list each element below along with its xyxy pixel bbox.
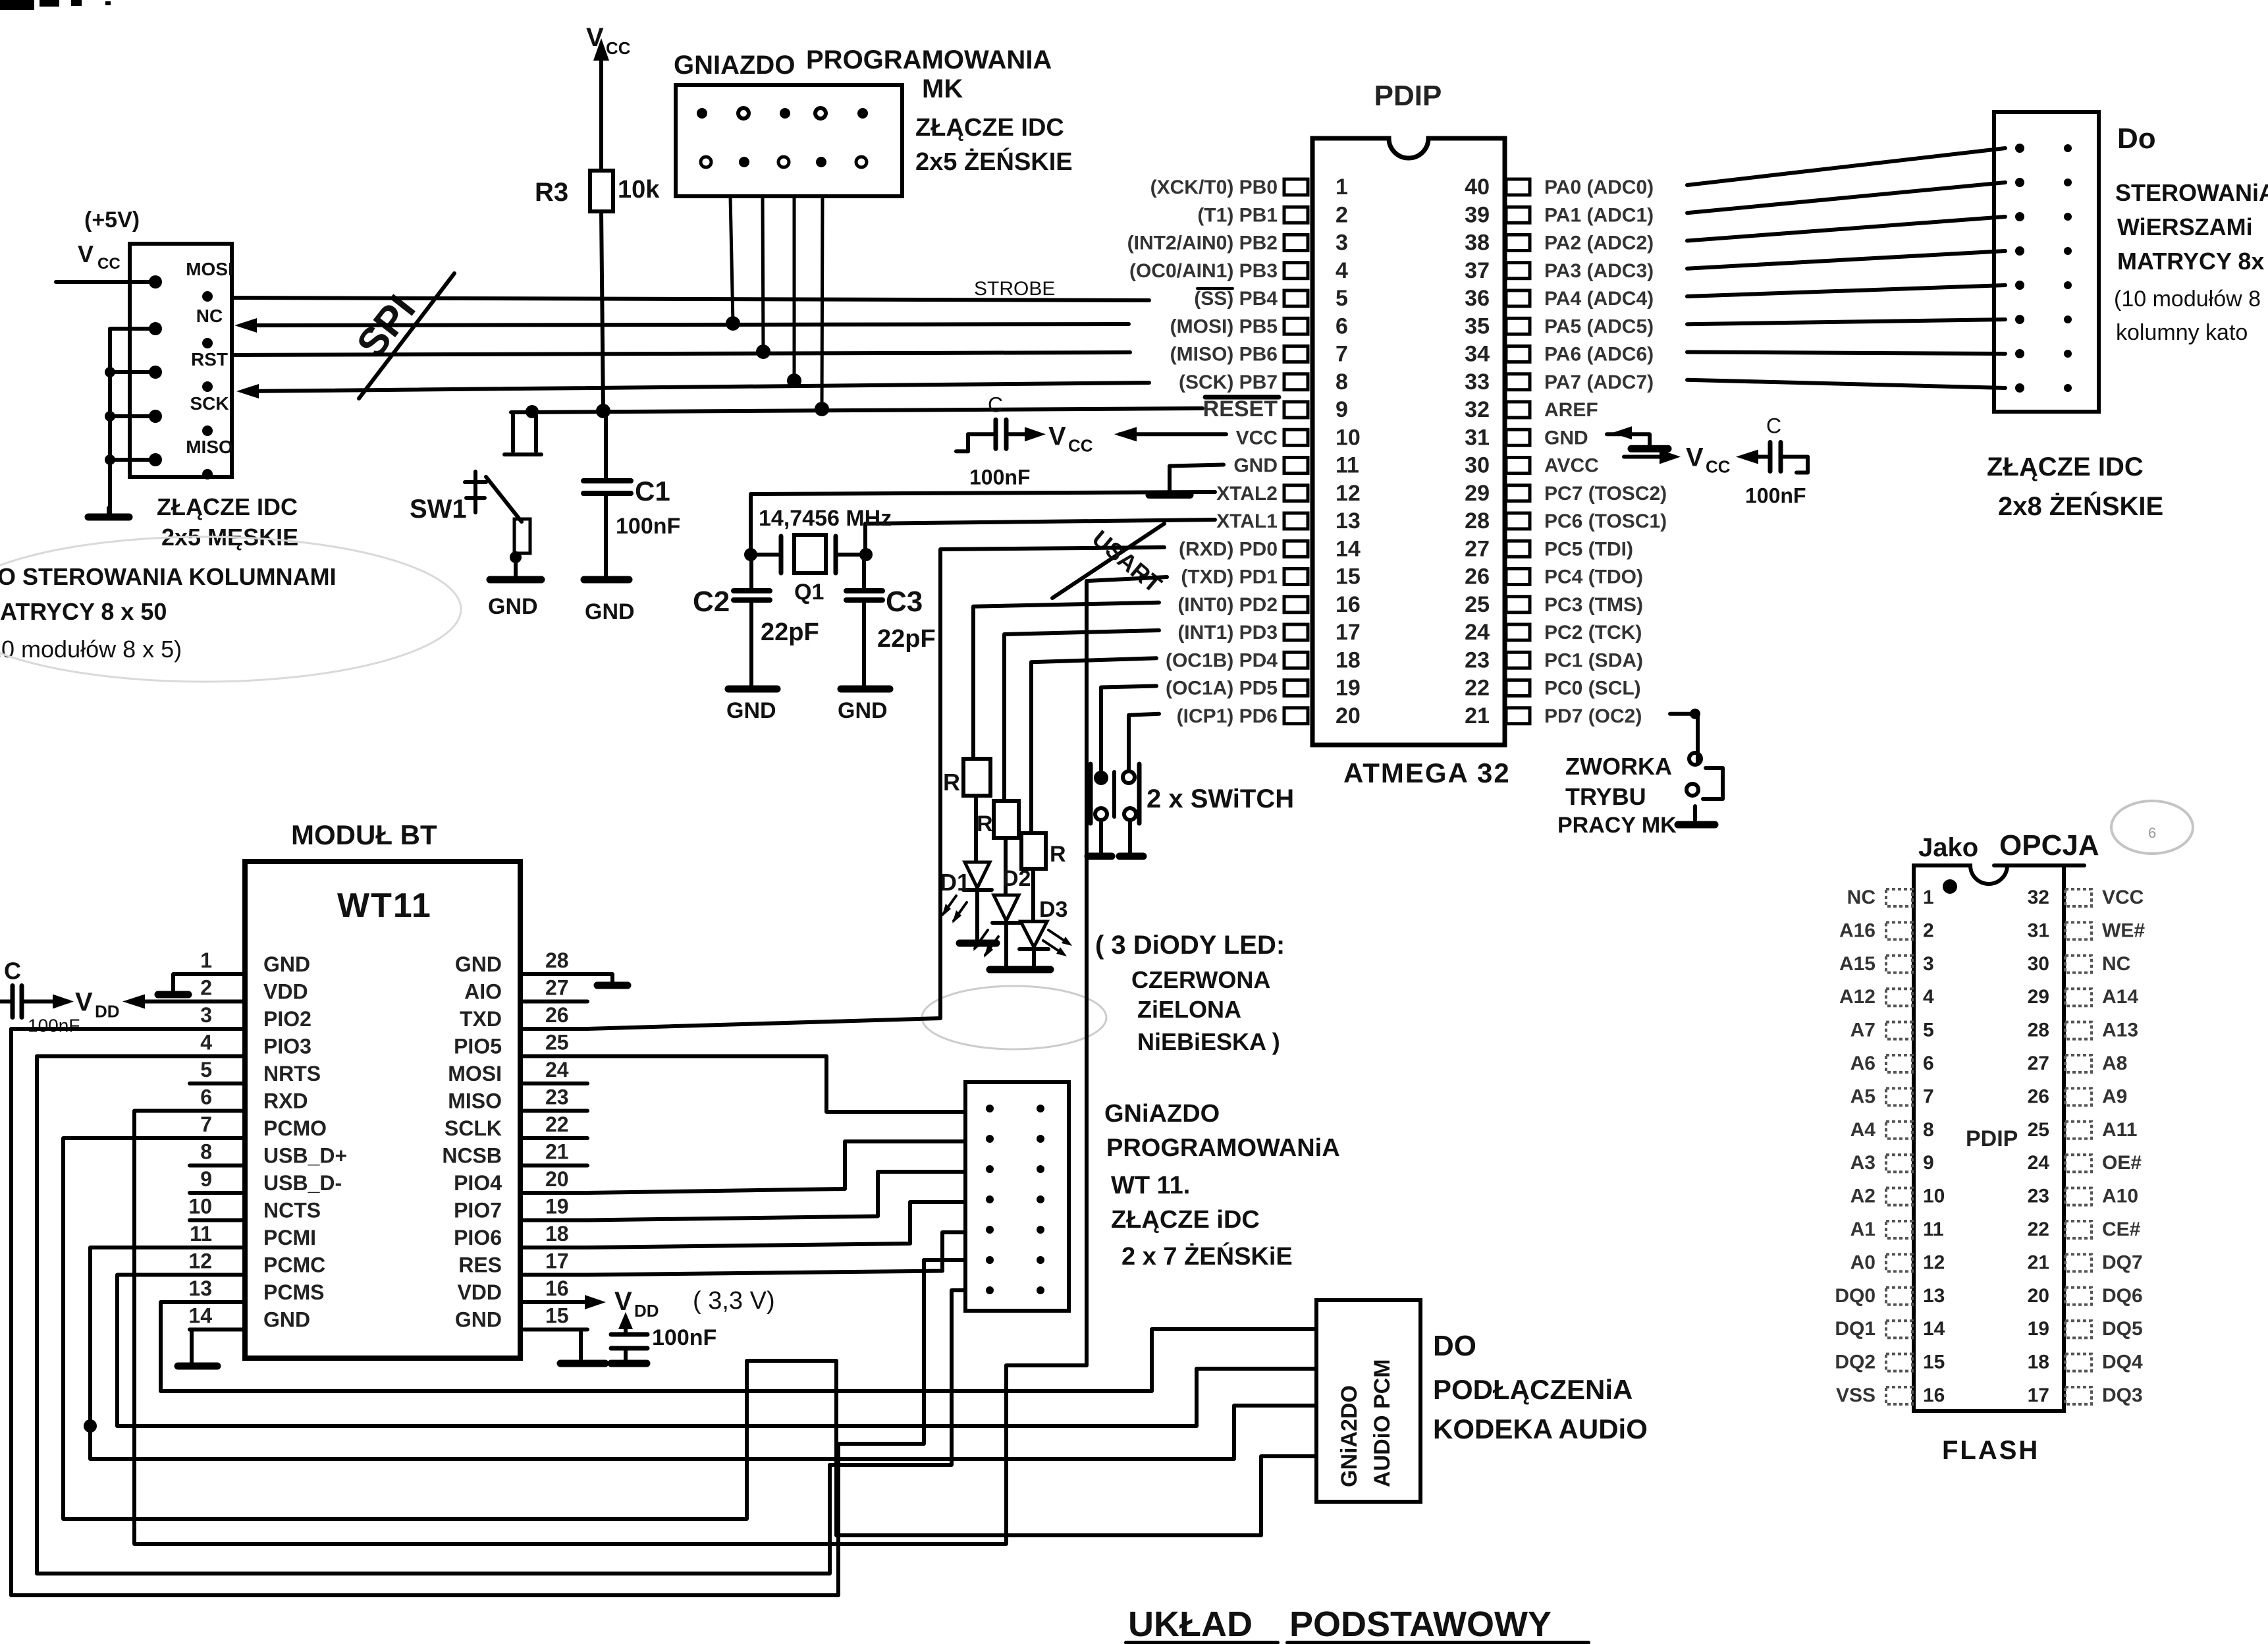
svg-text:33: 33	[1465, 370, 1490, 395]
svg-text:NiEBiESKA ): NiEBiESKA )	[1137, 1028, 1280, 1055]
pin 20 of U1 ((ICP1) PD6)	[1284, 708, 1308, 724]
pin NC of J1	[149, 322, 162, 335]
svg-text:WT11: WT11	[337, 887, 432, 925]
svg-text:ZŁĄCZE IDC: ZŁĄCZE IDC	[157, 493, 298, 520]
svg-text:PRACY MK: PRACY MK	[1557, 813, 1677, 838]
IC U2 WT11 module body	[245, 862, 520, 1358]
svg-text:17: 17	[2028, 1384, 2049, 1406]
pin 23 of U3 (A10)	[2065, 1188, 2092, 1205]
svg-text:OPCJA: OPCJA	[1999, 829, 2099, 862]
svg-text:OE#: OE#	[2102, 1152, 2142, 1174]
svg-text:8: 8	[1336, 370, 1348, 395]
svg-text:CZERWONA: CZERWONA	[1131, 966, 1270, 993]
svg-text:9: 9	[1336, 397, 1348, 422]
pin 1 of U1 ((XCK/T0) PB0)	[1284, 179, 1308, 195]
svg-text:6: 6	[200, 1085, 212, 1109]
svg-text:D1: D1	[940, 869, 970, 896]
svg-text:18: 18	[1336, 647, 1361, 672]
pin RST of J1	[149, 366, 162, 379]
power VDD 3.3V (WT11 pin16)	[587, 1300, 596, 1304]
svg-text:R: R	[977, 811, 993, 836]
svg-text:28: 28	[2028, 1020, 2049, 1041]
svg-text:PC3 (TMS): PC3 (TMS)	[1544, 594, 1643, 616]
svg-text:TRYBU: TRYBU	[1565, 783, 1646, 810]
svg-text:GND: GND	[455, 952, 502, 976]
svg-text:MK: MK	[922, 74, 963, 103]
capacitor C 100nF (AVCC pin30)	[1624, 455, 1673, 459]
ground (GND pin31)	[1607, 434, 1650, 446]
svg-text:27: 27	[2028, 1053, 2049, 1074]
capacitor C2 22pF	[749, 555, 753, 589]
wire WT11 PCMS to PCM socket	[161, 1302, 1316, 1391]
wire PD2 to R1	[973, 603, 1159, 759]
svg-text:PIO7: PIO7	[454, 1199, 502, 1222]
pin 13 of U3 (DQ0)	[1886, 1288, 1912, 1305]
switch S1	[1094, 771, 1108, 785]
svg-text:DQ5: DQ5	[2102, 1318, 2143, 1340]
svg-text:PA7 (ADC7): PA7 (ADC7)	[1544, 371, 1654, 393]
svg-text:12: 12	[1923, 1251, 1945, 1273]
pin 40 of U1 (PA0 (ADC0))	[1506, 179, 1530, 195]
svg-text:GND: GND	[726, 698, 776, 723]
svg-text:GND: GND	[1233, 455, 1278, 477]
svg-text:GND: GND	[1544, 427, 1588, 449]
svg-text:R: R	[1050, 842, 1066, 867]
svg-text:PIO5: PIO5	[454, 1035, 502, 1058]
svg-text:26: 26	[1465, 564, 1490, 589]
wire MISO (PB6)	[234, 352, 1130, 355]
svg-text:SW1: SW1	[410, 495, 467, 524]
pin 2x8 row1	[2015, 144, 2024, 153]
svg-text:7: 7	[1336, 342, 1348, 367]
svg-text:8: 8	[1923, 1119, 1934, 1141]
pin 35 of U1 (PA5 (ADC5))	[1506, 318, 1530, 334]
pin 26 of U1 (PC4 (TDO))	[1506, 569, 1530, 585]
svg-text:4: 4	[1923, 986, 1934, 1008]
svg-text:A10: A10	[2102, 1186, 2138, 1207]
ground	[1631, 445, 1668, 452]
pin 12 of U1 (XTAL2)	[1284, 485, 1308, 501]
pin 29 of U1 (PC7 (TOSC2))	[1506, 485, 1530, 501]
pin 27 of U1 (PC5 (TDI))	[1506, 541, 1530, 557]
svg-text:R: R	[943, 769, 960, 796]
pin 30 of U1 (AVCC)	[1506, 458, 1530, 474]
svg-text:WiERSZAMi: WiERSZAMi	[2117, 213, 2253, 240]
svg-text:Q1: Q1	[794, 580, 824, 605]
svg-text:(OC1B) PD4: (OC1B) PD4	[1166, 649, 1278, 671]
svg-text:PC6 (TOSC1): PC6 (TOSC1)	[1544, 510, 1667, 532]
pin 25 of U1 (PC3 (TMS))	[1506, 597, 1530, 613]
svg-text:(TXD) PD1: (TXD) PD1	[1181, 566, 1278, 588]
pin 13 of U1 (XTAL1)	[1284, 513, 1308, 529]
svg-text:17: 17	[545, 1249, 569, 1273]
pin 17 of U1 ((INT1) PD3)	[1284, 624, 1308, 640]
svg-text:3: 3	[1336, 231, 1348, 256]
pin MK row1 col5	[857, 108, 868, 119]
svg-text:2x5 ŻEŃSKIE: 2x5 ŻEŃSKIE	[915, 147, 1073, 176]
pin 25 of U3 (A11)	[2065, 1122, 2092, 1139]
svg-text:11: 11	[1336, 453, 1359, 478]
capacitor C 100nF (VCC pin10)	[1120, 432, 1226, 436]
svg-text:DQ3: DQ3	[2102, 1384, 2143, 1406]
svg-text:PC2 (TCK): PC2 (TCK)	[1544, 622, 1642, 644]
svg-text:1: 1	[1923, 887, 1934, 908]
svg-text:CC: CC	[97, 255, 121, 273]
LED D1	[965, 862, 990, 888]
svg-text:A15: A15	[1839, 953, 1876, 975]
svg-text:GNiAZDO: GNiAZDO	[1104, 1100, 1220, 1128]
pin 11 of U1 (GND)	[1284, 458, 1308, 474]
svg-text:22: 22	[2028, 1219, 2049, 1240]
pin 15 of U1 ((TXD) PD1)	[1284, 569, 1308, 585]
svg-text:37: 37	[1465, 258, 1490, 283]
svg-text:AREF: AREF	[1544, 399, 1598, 421]
wire PD4 to R3	[1031, 658, 1156, 833]
svg-text:DD: DD	[634, 1301, 659, 1321]
pin MK row1 col1	[697, 108, 707, 119]
svg-text:DQ2: DQ2	[1835, 1352, 1876, 1373]
ground	[1149, 491, 1190, 499]
svg-text:A3: A3	[1850, 1152, 1876, 1174]
svg-text:SCK: SCK	[190, 393, 229, 414]
svg-text:14: 14	[1923, 1318, 1945, 1340]
svg-text:21: 21	[545, 1140, 569, 1164]
ground	[728, 686, 777, 693]
svg-text:32: 32	[1465, 397, 1490, 422]
svg-text:24: 24	[545, 1058, 569, 1082]
svg-text:NRTS: NRTS	[263, 1062, 321, 1085]
svg-text:12: 12	[188, 1249, 212, 1273]
pin 33 of U1 (PA7 (ADC7))	[1506, 374, 1530, 390]
svg-text:MATRYCY 8x: MATRYCY 8x	[2117, 248, 2264, 275]
svg-text:SCLK: SCLK	[445, 1116, 502, 1140]
pin 12 of U3 (A0)	[1886, 1254, 1912, 1271]
wire WT11 PCMO to PCM socket	[63, 1138, 1316, 1535]
svg-text:DQ0: DQ0	[1835, 1285, 1876, 1307]
svg-text:GND: GND	[263, 1308, 310, 1332]
svg-text:16: 16	[545, 1276, 569, 1300]
connector GNIAZDO AUDIO PCM	[1316, 1300, 1420, 1502]
svg-text:25: 25	[1465, 592, 1490, 617]
pin 20 of U3 (DQ6)	[2065, 1288, 2092, 1305]
pin 2x8 row2	[2015, 178, 2024, 187]
ground	[158, 991, 188, 999]
svg-text:UKŁAD: UKŁAD	[1128, 1604, 1253, 1644]
svg-text:3: 3	[200, 1003, 212, 1027]
pin MK row1 col3	[780, 108, 790, 119]
svg-text:30: 30	[2028, 953, 2049, 975]
svg-text:PIO6: PIO6	[454, 1226, 502, 1249]
svg-text:PDIP: PDIP	[1374, 80, 1442, 112]
svg-text:9: 9	[200, 1167, 212, 1191]
jumper ZWORKA TRYBU PRACY MK	[1670, 714, 1698, 762]
pin 27 of U3 (A8)	[2065, 1055, 2092, 1072]
ground (GND pin11)	[1170, 465, 1224, 493]
svg-text:PA1 (ADC1): PA1 (ADC1)	[1544, 204, 1654, 226]
svg-text:100nF: 100nF	[28, 1016, 80, 1036]
ground	[1120, 853, 1143, 860]
svg-text:PCMS: PCMS	[263, 1280, 324, 1304]
ground	[959, 940, 996, 947]
switch S2	[1123, 771, 1135, 783]
svg-text:A0: A0	[1850, 1251, 1876, 1273]
wire MOSI (PB5)	[242, 324, 1129, 325]
svg-text:1: 1	[1336, 175, 1348, 200]
svg-text:DQ7: DQ7	[2102, 1251, 2143, 1273]
svg-text:22pF: 22pF	[877, 625, 936, 653]
svg-text:AUDiO PCM: AUDiO PCM	[1370, 1359, 1395, 1487]
wire PA2 to matrix connector	[1687, 217, 2005, 241]
svg-text:A2: A2	[1850, 1186, 1876, 1207]
svg-text:23: 23	[545, 1085, 569, 1109]
wire PA6 to matrix connector	[1687, 352, 2005, 354]
pin 3 of U3 (A15)	[1886, 956, 1912, 973]
svg-text:PCMC: PCMC	[263, 1253, 325, 1277]
svg-text:C3: C3	[886, 586, 923, 618]
ground	[841, 686, 890, 693]
svg-text:(OC0/AIN1) PB3: (OC0/AIN1) PB3	[1129, 260, 1278, 282]
svg-text:(SCK) PB7: (SCK) PB7	[1179, 371, 1278, 393]
svg-text:18: 18	[2028, 1352, 2049, 1373]
svg-text:(10 modułów 8: (10 modułów 8	[2114, 287, 2261, 312]
svg-text:TXD: TXD	[460, 1007, 502, 1031]
capacitor C1 100nF	[604, 411, 608, 479]
svg-text:20: 20	[545, 1167, 569, 1191]
wire Vcc to J1 pin1	[56, 280, 155, 284]
svg-text:D3: D3	[1039, 897, 1067, 922]
pin 38 of U1 (PA2 (ADC2))	[1506, 235, 1530, 251]
pin 2 of U1 ((T1) PB1)	[1284, 207, 1308, 223]
svg-text:RST: RST	[191, 349, 228, 370]
svg-text:GND: GND	[455, 1308, 502, 1332]
svg-text:C: C	[4, 958, 21, 985]
svg-text:NCSB: NCSB	[442, 1144, 502, 1168]
wire WT11 pin1 GND	[173, 974, 190, 992]
svg-text:PIO3: PIO3	[263, 1035, 311, 1058]
pin SCK of J1	[149, 410, 162, 423]
faint pencil circle	[2111, 801, 2193, 854]
svg-text:(ICP1) PD6: (ICP1) PD6	[1177, 705, 1278, 727]
svg-text:KODEKA AUDiO: KODEKA AUDiO	[1433, 1413, 1648, 1444]
svg-text:21: 21	[1465, 703, 1490, 728]
pin 10 of U1 (VCC)	[1284, 429, 1308, 445]
svg-text:STROBE: STROBE	[974, 278, 1055, 300]
wire WT11 PCMI to PCM socket	[90, 1247, 1316, 1459]
svg-text:VDD: VDD	[457, 1280, 502, 1304]
svg-text:2: 2	[1336, 202, 1348, 227]
wire XTAL2	[751, 492, 1215, 552]
pin 32 of U1 (AREF)	[1506, 402, 1530, 418]
svg-text:31: 31	[2028, 919, 2049, 941]
pin 29 of U3 (A14)	[2065, 989, 2092, 1006]
svg-text:GNIAZDO: GNIAZDO	[674, 51, 795, 80]
pin 8 of U1 ((SCK) PB7)	[1284, 374, 1308, 390]
capacitor C3 22pF	[862, 555, 866, 589]
wire ground rail of J1	[110, 329, 155, 514]
pin 3 of U1 ((INT2/AIN0) PB2)	[1284, 235, 1308, 251]
svg-text:13: 13	[1923, 1285, 1945, 1307]
svg-text:23: 23	[1465, 647, 1490, 672]
svg-text:A16: A16	[1839, 919, 1876, 941]
svg-text:PODŁĄCZENiA: PODŁĄCZENiA	[1433, 1374, 1633, 1405]
svg-text:ZWORKA: ZWORKA	[1565, 753, 1672, 780]
svg-text:27: 27	[1465, 536, 1490, 561]
ground	[611, 1360, 647, 1367]
resistor R3 10k	[590, 171, 613, 211]
LED D3	[1021, 921, 1047, 947]
svg-text:GND: GND	[263, 952, 310, 976]
svg-text:9: 9	[1923, 1152, 1934, 1174]
wire PD6 to switch S2	[1129, 714, 1159, 771]
svg-text:V: V	[614, 1287, 632, 1316]
svg-text:PA0 (ADC0): PA0 (ADC0)	[1544, 177, 1654, 198]
pin 2x8 row7	[2015, 349, 2024, 358]
pin 22 of U3 (CE#)	[2065, 1221, 2092, 1238]
pin 14 of U1 ((RXD) PD0)	[1284, 541, 1308, 557]
pin 36 of U1 (PA4 (ADC4))	[1506, 290, 1530, 306]
svg-text:(MISO) PB6: (MISO) PB6	[1170, 344, 1278, 366]
pin 30 of U3 (NC)	[2065, 956, 2092, 973]
svg-text:100nF: 100nF	[616, 514, 680, 539]
svg-text:RESET: RESET	[1203, 397, 1278, 422]
pin 6 of U3 (A6)	[1886, 1055, 1912, 1072]
svg-text:100nF: 100nF	[1745, 484, 1806, 508]
wire PA0 to matrix connector	[1687, 148, 2005, 185]
pin 37 of U1 (PA3 (ADC3))	[1506, 263, 1530, 279]
svg-text:20: 20	[2028, 1285, 2049, 1307]
svg-text:36: 36	[1465, 286, 1490, 311]
wire WT11 PIO6 to prog connector	[587, 1202, 965, 1247]
svg-text:VSS: VSS	[1836, 1384, 1876, 1406]
ground	[178, 1363, 217, 1370]
svg-text:MISO: MISO	[448, 1089, 502, 1113]
connector GNIAZDO PROGRAMOWANIA MK (IDC 2x5 zenskie)	[676, 85, 902, 196]
pin 34 of U1 (PA6 (ADC6))	[1506, 346, 1530, 362]
wire WT11 PIO3 (nest)	[37, 1056, 965, 1574]
connector J1 ZLACZE IDC 2x5 MESKIE	[130, 244, 232, 477]
pin 4 of U3 (A12)	[1886, 989, 1912, 1006]
capacitor C 100nF (WT11 VDD) + power VDD	[0, 1000, 13, 1004]
svg-text:DO STEROWANIA KOLUMNAMI: DO STEROWANIA KOLUMNAMI	[0, 563, 337, 590]
wire STROBE (PB4)	[232, 298, 1149, 300]
svg-text:A7: A7	[1850, 1020, 1876, 1041]
svg-text:PC7 (TOSC2): PC7 (TOSC2)	[1544, 483, 1667, 505]
wire MK pin to RESET line	[822, 196, 823, 409]
svg-text:11: 11	[1923, 1219, 1944, 1240]
svg-text:21: 21	[2028, 1251, 2049, 1273]
svg-text:A9: A9	[2102, 1085, 2127, 1107]
wire WT11 pin14 GND	[190, 1330, 192, 1363]
svg-text:kolumny kato: kolumny kato	[2116, 320, 2248, 345]
svg-text:4: 4	[1336, 258, 1348, 283]
svg-text:MISO: MISO	[186, 437, 233, 457]
svg-text:15: 15	[545, 1304, 569, 1328]
svg-text:29: 29	[1465, 481, 1490, 506]
pin 14 of U3 (DQ1)	[1886, 1321, 1912, 1338]
ground	[88, 514, 129, 521]
wire PA7 to matrix connector	[1687, 380, 2005, 388]
pin 31 of U3 (WE#)	[2065, 922, 2092, 939]
svg-text:ZŁĄCZE iDC: ZŁĄCZE iDC	[1111, 1206, 1260, 1234]
svg-text:26: 26	[545, 1003, 569, 1027]
pin1 mark U3	[1943, 879, 1957, 894]
IC U1 ATMEGA32 PDIP-40 body	[1312, 138, 1505, 745]
svg-text:(T1) PB1: (T1) PB1	[1197, 204, 1278, 226]
svg-text:PCMO: PCMO	[263, 1116, 327, 1140]
pin 2x7 row6	[986, 1256, 994, 1264]
resistor R2	[994, 801, 1019, 838]
svg-text:PA4 (ADC4): PA4 (ADC4)	[1544, 288, 1654, 310]
wire WT11 pin28 GND	[587, 974, 612, 983]
pin MK row1 col4	[815, 108, 826, 119]
pin 5 of U3 (A7)	[1886, 1022, 1912, 1039]
wire WT11 PIO5 to prog connector	[587, 1056, 965, 1112]
svg-text:(MOSI) PB5: (MOSI) PB5	[1170, 315, 1278, 337]
svg-text:WT 11.: WT 11.	[1111, 1172, 1190, 1199]
svg-text:(XCK/T0) PB0: (XCK/T0) PB0	[1150, 177, 1278, 198]
wire PD3 to R2	[1004, 630, 1159, 801]
svg-text:(RXD) PD0: (RXD) PD0	[1179, 538, 1278, 560]
pin 24 of U1 (PC2 (TCK))	[1506, 624, 1530, 640]
svg-text:10: 10	[1336, 425, 1361, 450]
pin 6 of U1 ((MOSI) PB5)	[1284, 318, 1308, 334]
pin 2x7 row4	[986, 1195, 994, 1203]
svg-text:A13: A13	[2102, 1020, 2138, 1041]
svg-text:RXD: RXD	[263, 1089, 308, 1113]
svg-text:(OC1A) PD5: (OC1A) PD5	[1166, 678, 1278, 699]
svg-text:MODUŁ BT: MODUŁ BT	[291, 819, 437, 850]
svg-text:PA3 (ADC3): PA3 (ADC3)	[1544, 260, 1654, 282]
svg-text:5: 5	[1336, 286, 1348, 311]
svg-text:(INT2/AIN0) PB2: (INT2/AIN0) PB2	[1127, 233, 1278, 254]
svg-text:R3: R3	[535, 178, 568, 207]
net label USART with slash	[1052, 524, 1164, 598]
svg-text:PC0 (SCL): PC0 (SCL)	[1544, 678, 1641, 699]
svg-text:(SS) PB4: (SS) PB4	[1194, 288, 1278, 310]
svg-text:PIO2: PIO2	[263, 1007, 311, 1031]
pin MK row2 col1	[701, 157, 711, 167]
svg-text:4: 4	[200, 1031, 212, 1055]
svg-text:PA6 (ADC6): PA6 (ADC6)	[1544, 344, 1654, 366]
svg-text:2x8 ŻEŃSKIE: 2x8 ŻEŃSKIE	[1998, 491, 2163, 521]
ground	[1019, 966, 1050, 973]
svg-text:34: 34	[1465, 342, 1490, 367]
svg-text:XTAL1: XTAL1	[1216, 510, 1278, 532]
svg-text:NC: NC	[196, 306, 223, 326]
svg-text:DO: DO	[1433, 1330, 1476, 1362]
svg-text:V: V	[1048, 422, 1066, 451]
svg-text:A14: A14	[2102, 986, 2138, 1008]
svg-text:CC: CC	[606, 38, 631, 58]
resistor R1	[963, 759, 990, 796]
svg-text:Do: Do	[2117, 123, 2156, 155]
pin 18 of U1 ((OC1B) PD4)	[1284, 652, 1308, 668]
wire RESET net	[511, 408, 1202, 412]
pin 31 of U1 (GND)	[1506, 429, 1530, 445]
wire MK pin to SCK line	[793, 196, 796, 381]
pin 2x7 row3	[986, 1165, 994, 1173]
pin 2x8 row4	[2015, 246, 2024, 256]
pin 2x8 row6	[2015, 315, 2024, 324]
pin 15 of U3 (DQ2)	[1886, 1354, 1912, 1371]
svg-text:PODSTAWOWY: PODSTAWOWY	[1289, 1604, 1552, 1644]
svg-text:22: 22	[545, 1112, 569, 1136]
svg-text:(INT1) PD3: (INT1) PD3	[1177, 622, 1278, 644]
svg-text:(10 modułów 8 x 5): (10 modułów 8 x 5)	[0, 636, 182, 663]
svg-text:PC5 (TDI): PC5 (TDI)	[1544, 538, 1633, 560]
ground	[490, 576, 541, 584]
svg-text:MOSI: MOSI	[186, 259, 233, 279]
